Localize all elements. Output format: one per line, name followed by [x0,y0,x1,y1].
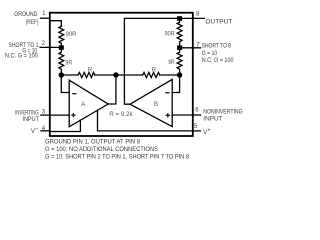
svg-text:N.C. G = 100: N.C. G = 100 [202,57,234,64]
node dot center [113,72,118,77]
pin 2 lead [40,46,59,48]
svg-text:9R: 9R [65,60,73,67]
svg-text:−: − [35,126,39,133]
minus A [72,93,76,94]
node dot left [59,72,64,77]
svg-text:GROUND PIN 1, OUTPUT AT PIN 8: GROUND PIN 1, OUTPUT AT PIN 8 [45,139,140,146]
svg-text:INPUT: INPUT [23,116,39,123]
svg-text:GROUND: GROUND [14,11,38,18]
wire B output to pin 8 [124,18,204,104]
package outline box [50,13,193,136]
svg-text:INPUT: INPUT [203,115,222,122]
svg-text:OUTPUT: OUTPUT [205,18,232,25]
svg-text:(REF): (REF) [26,19,39,26]
svg-text:90R: 90R [165,31,175,38]
wire A noninverting input / pin 3 lead [41,114,69,116]
resistor 90R right [177,21,182,46]
minus B [165,92,169,93]
mid wire center [95,74,143,76]
wire V+ to A supply [98,110,193,131]
wire A inverting input [61,75,69,93]
resistor 90R left [59,26,64,45]
wire A output [108,75,116,104]
pin 4 lead [41,130,50,132]
svg-text:9R: 9R [168,59,175,66]
resistor 9R left [59,50,64,73]
resistor 9R right [177,50,182,73]
wire V- to A supply [50,120,81,131]
svg-text:G = 100: NO ADDITIONAL CONNECT: G = 100: NO ADDITIONAL CONNECTIONS [45,146,158,153]
wire B inverting input [172,75,179,93]
svg-text:90R: 90R [66,31,77,38]
resistor R right [143,72,160,77]
svg-text:R = 9.2k: R = 9.2k [109,111,133,118]
op-amp B triangle [130,79,172,126]
pin 7 lead [180,47,201,49]
wire B noninverting input / pin 6 lead [172,114,201,116]
svg-text:SHORT TO 8: SHORT TO 8 [202,43,232,50]
svg-text:G = 10: SHORT PIN 2 TO PIN 1,: G = 10: SHORT PIN 2 TO PIN 1, SHORT PIN … [45,153,189,160]
svg-text:B: B [154,101,158,108]
mid wire right [160,74,180,76]
svg-text:6: 6 [195,107,199,113]
svg-text:N.C. G = 100: N.C. G = 100 [5,53,38,60]
svg-text:A: A [81,101,86,108]
svg-text:8: 8 [196,11,200,17]
node dot right [177,72,182,77]
svg-text:+: + [207,127,211,134]
svg-text:2: 2 [42,41,46,47]
wire branch pin1 to 90R [50,21,62,27]
svg-text:R: R [88,67,93,74]
svg-text:5: 5 [194,124,198,130]
op-amp A triangle [69,80,108,127]
svg-text:1: 1 [42,11,46,17]
node square top right [177,16,182,21]
plus A [71,115,75,116]
pin 5 lead [193,130,201,132]
svg-text:R: R [152,67,157,74]
op-amp input polarity symbols [71,92,170,117]
mid wire left [61,74,78,76]
pin 1 lead [41,17,50,19]
resistor R left [78,72,95,77]
node pin2 square [59,45,64,50]
node pin7 square [177,45,182,50]
plus B [166,115,170,116]
